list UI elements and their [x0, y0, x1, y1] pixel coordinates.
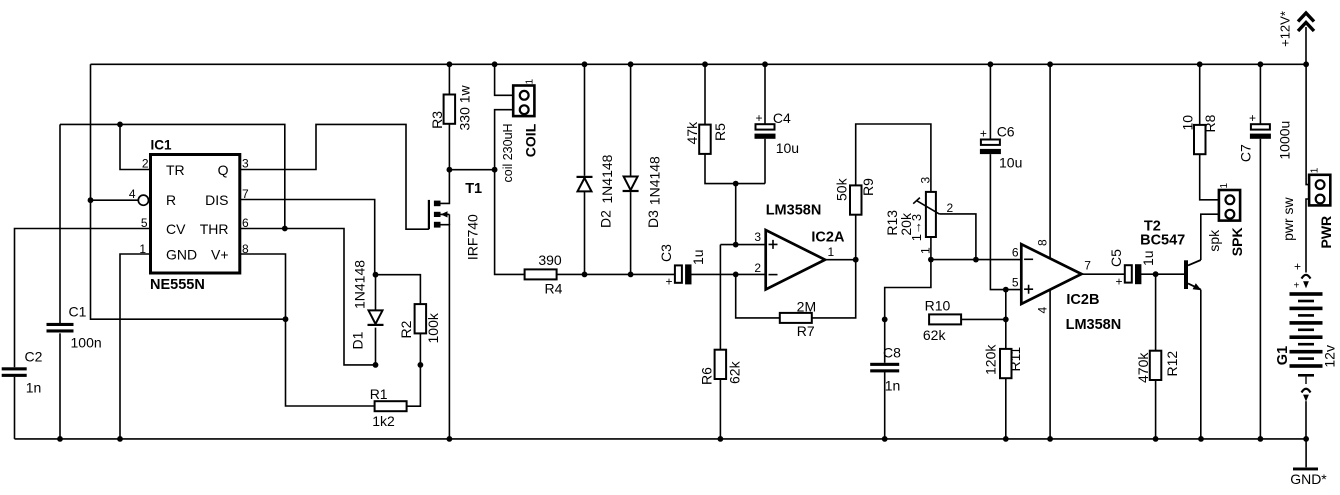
node junction R3 rail	[447, 61, 453, 67]
svg-text:R8: R8	[1202, 114, 1218, 132]
transistor T2 BC547	[1184, 260, 1201, 290]
capacitor C5	[1108, 249, 1156, 288]
wire C8 bottom to rail	[884, 372, 886, 439]
node junction C1 rail	[57, 436, 63, 442]
wire PWR pin 2 to battery	[1306, 199, 1309, 273]
wire IC1 pin 1 GND to ground rail	[120, 254, 151, 439]
node junction R5 rail	[702, 61, 708, 67]
node junction R12 rail	[1153, 436, 1159, 442]
wire R10 right	[961, 318, 1006, 320]
wire to C8 top	[884, 319, 886, 362]
resistor R2	[415, 304, 427, 333]
node junction V+ supply	[283, 316, 289, 322]
resistor R9	[850, 185, 862, 214]
svg-text:TR: TR	[166, 162, 185, 178]
resistor R3	[444, 95, 456, 124]
svg-text:T1: T1	[465, 181, 482, 197]
resistor R7	[780, 313, 812, 323]
node junction R10 R11	[1003, 317, 1009, 323]
node junction D2 rail	[582, 61, 588, 67]
wire coil pin 1 to rail	[495, 64, 514, 95]
svg-text:IC2B: IC2B	[1066, 292, 1099, 308]
wire R13 bottom	[930, 237, 932, 260]
svg-text:+: +	[1294, 281, 1300, 292]
diode D3 1N4148	[623, 177, 639, 193]
node junction GND rail	[117, 436, 123, 442]
wire D3 cathode down	[630, 192, 632, 274]
wire output to R7 right and R9 bottom	[810, 214, 855, 318]
svg-text:R2: R2	[398, 320, 414, 338]
wire R6 bottom to rail	[719, 379, 721, 439]
node junction C6 rail	[988, 61, 994, 67]
svg-text:2: 2	[754, 261, 761, 275]
svg-text:+: +	[666, 275, 673, 289]
wire IC2A output	[825, 259, 856, 261]
svg-text:+12V*: +12V*	[1278, 11, 1293, 47]
capacitor C8	[870, 363, 899, 373]
capacitor C4	[755, 110, 800, 156]
svg-text:330 1w: 330 1w	[457, 84, 473, 130]
node junction battery rail	[1303, 436, 1309, 442]
wire pin 6 line	[931, 259, 1021, 261]
svg-text:C1: C1	[69, 303, 87, 319]
wire D1 bottom lead	[375, 328, 377, 365]
svg-text:3: 3	[242, 157, 249, 171]
svg-text:C3: C3	[658, 244, 674, 262]
capacitor C2	[2, 367, 27, 377]
IC IC1 NE555N box	[151, 155, 240, 274]
node junction R10 C8	[882, 317, 888, 323]
node junction D1 cathode	[373, 362, 379, 368]
node junction C8 rail	[882, 436, 888, 442]
svg-text:1u: 1u	[1140, 250, 1156, 266]
wire rail to C6	[989, 64, 991, 139]
node junction R5 C4	[733, 181, 739, 187]
wire coil pin 2 down	[495, 110, 514, 170]
wire rail to C7	[1259, 64, 1261, 124]
wire R9 top to R13 top	[856, 124, 931, 192]
wire TR/THR link top	[60, 124, 285, 228]
svg-text:SPK: SPK	[1229, 227, 1245, 256]
connector SPK	[1219, 183, 1240, 221]
svg-text:C2: C2	[25, 349, 43, 365]
svg-text:D3: D3	[645, 210, 661, 228]
node junction R11 rail	[1003, 436, 1009, 442]
svg-text:THR: THR	[200, 221, 229, 237]
node junction THR line	[282, 226, 288, 232]
wire rail to IC2B pin 8	[1049, 64, 1051, 258]
wire IC1 pin 6 THR to D1 bottom	[240, 229, 376, 365]
svg-text:G1: G1	[1275, 346, 1291, 365]
svg-text:2M: 2M	[797, 298, 816, 314]
svg-text:10: 10	[1180, 115, 1196, 131]
svg-text:BC547: BC547	[1140, 232, 1185, 248]
svg-text:8: 8	[1036, 239, 1050, 246]
wire IC2B output to C5	[1082, 273, 1126, 275]
svg-text:V+: V+	[211, 247, 229, 263]
wire to non-inverting input	[735, 184, 737, 245]
node junction emitter rail	[1198, 436, 1204, 442]
svg-text:IC1: IC1	[151, 138, 173, 153]
svg-text:120k: 120k	[983, 344, 999, 375]
node junction C7 rail bottom	[1258, 436, 1264, 442]
node junction R13 bottom	[928, 257, 934, 263]
resistor R11	[1000, 349, 1012, 378]
svg-text:C5: C5	[1108, 249, 1124, 267]
wire C4 bottom join	[764, 139, 766, 184]
wire C3 to IC2A pin 2	[691, 273, 766, 275]
wire GND bottom rail	[15, 438, 1307, 440]
wire to R2 top	[376, 275, 421, 304]
wire T2 collector to SPK	[1201, 214, 1219, 260]
node junction PWR rail	[1303, 61, 1309, 67]
capacitor C7	[0, 0, 1271, 139]
svg-text:+: +	[756, 111, 763, 125]
svg-text:+: +	[1116, 274, 1123, 288]
svg-text:+: +	[1249, 111, 1256, 125]
svg-text:1N4148: 1N4148	[599, 154, 615, 203]
wire +12V top rail	[91, 63, 1307, 65]
svg-text:6: 6	[1012, 245, 1019, 259]
svg-text:1k2: 1k2	[372, 413, 395, 429]
node junction coil rail	[492, 61, 498, 67]
svg-text:R: R	[166, 192, 176, 208]
svg-text:3: 3	[919, 177, 933, 184]
node junction pin4 rail	[1047, 436, 1053, 442]
svg-text:C4: C4	[773, 110, 791, 126]
node junction R8 rail	[1197, 61, 1203, 67]
wire IC1 pin 8 V+ down to R1	[240, 254, 375, 406]
node junction D2 line	[582, 272, 588, 278]
wire R11 bottom to rail	[1005, 378, 1007, 439]
svg-text:C7: C7	[1237, 144, 1253, 162]
capacitor C6	[980, 124, 1022, 171]
svg-text:R11: R11	[1007, 347, 1023, 372]
wire down to R11	[1005, 290, 1007, 349]
svg-text:7: 7	[1084, 258, 1091, 272]
svg-text:62k: 62k	[727, 360, 743, 384]
svg-text:DIS: DIS	[205, 192, 228, 208]
svg-text:R6: R6	[699, 367, 715, 385]
wire C6 bottom to pin 5	[990, 154, 1021, 290]
ground GND*	[1290, 439, 1327, 487]
svg-text:pwr sw: pwr sw	[1280, 196, 1296, 240]
wire R1 right to R2 node	[407, 365, 421, 406]
wire T2 emitter to rail	[1200, 290, 1202, 439]
svg-text:NE555N: NE555N	[150, 277, 205, 293]
svg-text:CV: CV	[166, 221, 186, 237]
svg-text:IRF740: IRF740	[465, 214, 481, 260]
wire +12V left drop to V+ node	[91, 64, 286, 319]
svg-text:COIL: COIL	[523, 123, 539, 157]
wire rail to D3 anode	[630, 64, 632, 176]
diode D1 1N4148	[368, 310, 384, 326]
wire down to R12	[1155, 274, 1157, 351]
svg-text:C7: C7	[0, 0, 18, 3]
node junction C7 rail	[1258, 61, 1264, 67]
wire rail to R3 top	[448, 64, 450, 94]
svg-text:+: +	[980, 126, 987, 140]
svg-text:R4: R4	[545, 281, 563, 297]
svg-text:10u: 10u	[776, 140, 799, 156]
op-amp IC2A	[766, 230, 825, 289]
svg-text:spk: spk	[1206, 229, 1222, 252]
svg-text:coil 230uH: coil 230uH	[501, 123, 515, 182]
node junction pin 5	[1003, 287, 1009, 293]
node junction C4 rail	[762, 61, 768, 67]
node junction coil bottom	[492, 167, 498, 173]
svg-text:5: 5	[1012, 275, 1019, 289]
svg-text:1n: 1n	[885, 378, 901, 394]
capacitor C3	[658, 244, 706, 289]
wire coil node down to R4	[495, 170, 525, 275]
svg-text:Q: Q	[218, 162, 229, 178]
wire C1 bottom to ground rail	[59, 333, 61, 439]
resistor R6	[715, 350, 727, 379]
svg-text:62k: 62k	[923, 327, 947, 343]
svg-text:GND*: GND*	[1290, 471, 1327, 487]
node junction pin 3	[733, 242, 739, 248]
node junction D3 line	[628, 272, 634, 278]
wire D2 anode down	[584, 191, 586, 274]
svg-text:1: 1	[1309, 167, 1320, 173]
wire rail to R8	[1199, 64, 1201, 125]
svg-text:4: 4	[1036, 307, 1050, 314]
capacitor C1	[47, 323, 74, 333]
potentiometer R13 20k	[913, 192, 939, 237]
node junction pin4 tap	[88, 197, 94, 203]
node junction D1 anode DIS	[373, 272, 379, 278]
svg-text:C8: C8	[883, 345, 901, 361]
battery G1 12v	[1290, 260, 1323, 439]
resistor R1	[375, 401, 407, 411]
svg-text:+: +	[1294, 260, 1301, 274]
wire R5 bottom join	[705, 154, 765, 184]
op-amp IC2B	[1021, 244, 1081, 304]
svg-text:LM358N: LM358N	[766, 202, 822, 218]
node junction D3 rail	[628, 61, 634, 67]
node junction TR tap	[117, 122, 123, 128]
svg-text:R3: R3	[429, 111, 445, 129]
wire to R10 left	[885, 260, 931, 320]
wire C5 to T2 base	[1141, 273, 1184, 275]
resistor R10	[929, 314, 961, 324]
node junction base R12	[1153, 271, 1159, 277]
resistor R12	[1150, 351, 1162, 380]
svg-text:1→3: 1→3	[909, 214, 924, 241]
node junction R2 bottom	[418, 362, 424, 368]
wire IC1 pin 5 CV to C2	[15, 229, 151, 368]
connector PWR	[1309, 167, 1330, 205]
wire PWR pin 1 to rail	[1306, 64, 1309, 184]
svg-text:C6: C6	[997, 124, 1015, 140]
wire D1 top lead	[375, 275, 377, 311]
wire rail to C4	[764, 64, 766, 124]
supply +12V* arrow	[1298, 13, 1314, 64]
svg-text:12v: 12v	[1322, 345, 1338, 368]
svg-text:390: 390	[538, 252, 562, 268]
svg-text:IC2A: IC2A	[811, 229, 845, 245]
svg-text:R12: R12	[1164, 351, 1180, 377]
IC1 pin 4 inversion bubble	[138, 195, 148, 205]
svg-text:47k: 47k	[684, 121, 700, 145]
node junction R6 rail	[718, 436, 724, 442]
svg-text:1000u: 1000u	[1277, 121, 1293, 160]
resistor R8	[1194, 125, 1206, 154]
svg-text:R7: R7	[797, 323, 815, 339]
svg-text:1u: 1u	[690, 249, 706, 265]
wire R3 bottom to drain node	[448, 124, 450, 170]
wire IC1 pin 3 Q to T1 gate	[240, 124, 429, 229]
transistor T1 IRF740	[429, 170, 450, 439]
svg-text:1n: 1n	[26, 380, 42, 396]
wire IC2B pin 4 to rail	[1049, 290, 1051, 439]
wire to IC1 pin 2 TR	[120, 124, 151, 169]
wire R13 wiper	[939, 214, 976, 260]
resistor R5	[699, 125, 711, 154]
svg-text:1N4148: 1N4148	[647, 156, 663, 205]
node junction inverting input	[733, 272, 739, 278]
svg-text:PWR: PWR	[1318, 216, 1334, 249]
svg-text:R5: R5	[712, 123, 728, 141]
wire drain node to coil branch	[449, 169, 494, 171]
wire to IC1 pin 4 R	[91, 199, 139, 201]
wire rail to R5	[704, 64, 706, 124]
wire down to R7 left	[736, 274, 780, 318]
svg-text:470k: 470k	[1135, 352, 1151, 383]
wire R8 bottom to SPK pin 1	[1200, 154, 1219, 200]
svg-text:R9: R9	[860, 178, 876, 196]
svg-text:LM358N: LM358N	[1066, 317, 1122, 333]
svg-text:100n: 100n	[71, 335, 102, 351]
connector COIL	[513, 79, 535, 117]
svg-text:10u: 10u	[999, 154, 1022, 170]
node junction drain	[447, 167, 453, 173]
svg-text:D2: D2	[598, 210, 614, 228]
svg-text:50k: 50k	[834, 177, 850, 201]
svg-text:GND: GND	[166, 247, 197, 263]
svg-text:100k: 100k	[425, 312, 441, 343]
svg-text:R10: R10	[925, 298, 951, 314]
svg-text:1: 1	[828, 245, 835, 259]
wire C7 bottom to rail	[1259, 139, 1261, 439]
svg-text:3: 3	[754, 230, 761, 244]
diode D2 1N4148	[577, 176, 593, 192]
wire rail to D2 cathode	[584, 64, 586, 176]
svg-text:D1: D1	[350, 331, 366, 349]
wire R4 to C3	[557, 273, 675, 275]
wire IC1 pin 7 DIS down to D1 top	[240, 200, 375, 275]
svg-text:1: 1	[525, 79, 536, 85]
wire R2 bottom	[419, 333, 421, 365]
node junction T1 source rail	[447, 436, 453, 442]
wire down to C1 top	[59, 124, 61, 323]
svg-text:1N4148: 1N4148	[352, 260, 368, 309]
node junction wiper	[973, 257, 979, 263]
wire down to R6	[719, 245, 721, 350]
node junction output 1	[853, 257, 859, 263]
svg-text:2: 2	[142, 157, 149, 171]
node junction pin8 rail	[1047, 61, 1053, 67]
svg-text:1: 1	[1219, 183, 1230, 189]
wire pin 3 line	[720, 244, 765, 246]
wire C2 bottom to ground rail	[14, 377, 16, 439]
wire R12 bottom to rail	[1155, 380, 1157, 439]
svg-text:4: 4	[129, 187, 136, 201]
resistor R4	[525, 269, 557, 279]
svg-text:R1: R1	[370, 386, 388, 402]
